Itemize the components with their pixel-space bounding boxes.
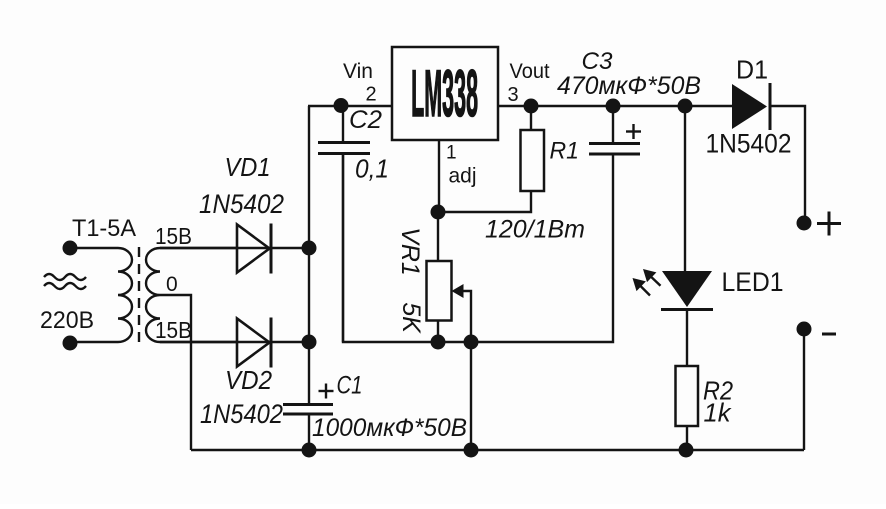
capacitor C2 [318,106,370,342]
wire D1 cathode to plus terminal [770,106,805,217]
diode VD2 [160,318,271,368]
svg-text:15В: 15В [155,317,192,343]
capacitor C1 [283,405,333,451]
svg-text:VD2: VD2 [225,365,273,395]
svg-text:15В: 15В [155,223,192,249]
node C3 junction [606,99,621,114]
svg-text:Vout: Vout [510,60,550,83]
svg-text:T1-5A: T1-5A [72,215,136,242]
svg-text:2: 2 [366,84,377,106]
svg-text:LED1: LED1 [722,267,784,297]
svg-text:VD1: VD1 [225,154,271,182]
node Vin junction [334,98,349,113]
node C1 ground junction [302,443,317,458]
wire VD2 cathode to node [271,341,310,343]
transformer T1 secondary winding [146,248,236,342]
node adj junction [431,205,446,220]
wire rectified bus vertical [308,106,310,405]
op-amp U1 regulator LM338 box [392,47,498,140]
svg-text:220В: 220В [40,307,94,334]
minus output terminal [797,322,812,337]
capacitor C3 [589,106,640,154]
label plus [817,212,841,236]
potentiometer VR1 [427,212,452,342]
node VR1 bottom junction [431,335,446,350]
wire output rail [498,105,732,107]
svg-text:1000мкФ*50В: 1000мкФ*50В [312,414,467,442]
svg-text:LM338: LM338 [411,58,478,131]
svg-text:5K: 5K [397,302,425,334]
AC waveform symbol [44,274,86,289]
svg-text:C2: C2 [349,106,382,134]
node Vout junction [524,99,539,114]
svg-text:R1: R1 [550,138,580,165]
svg-text:470мкФ*50В: 470мкФ*50В [557,72,701,100]
resistor R2 [676,366,699,450]
svg-text:C1: C1 [337,372,363,400]
transformer T1 core [138,247,140,344]
node wiper ground junction [464,443,479,458]
polarity plus of C3 [626,124,641,139]
plus output terminal [797,216,812,231]
wire LED to R2 [686,310,688,366]
node wiper junction [464,335,479,350]
node R2 ground junction [679,443,694,458]
svg-text:D1: D1 [736,55,768,85]
primary bottom terminal [63,336,78,351]
wire 0-tap to ground rail [160,295,191,450]
svg-text:3: 3 [508,84,519,106]
wire adj pin 1 [438,140,440,212]
svg-text:1N5402: 1N5402 [706,129,792,159]
wire top rail to regulator input [308,105,392,107]
svg-text:1: 1 [446,143,457,164]
diode VD1 [160,224,271,274]
svg-text:1N5402: 1N5402 [199,189,284,219]
node VD1 junction [302,241,317,256]
node VD2 junction [302,335,317,350]
wire minus terminal to ground rail [803,334,805,450]
svg-text:C3: C3 [582,48,614,75]
primary top terminal [63,241,78,256]
polarity plus of C1 [319,384,334,399]
svg-text:Vin: Vin [343,60,373,83]
svg-text:0: 0 [166,273,178,296]
node LED branch junction [678,99,693,114]
svg-text:120/1Вт: 120/1Вт [485,216,585,244]
wire VD1 cathode to node [271,247,310,249]
transformer T1 primary winding [70,248,132,342]
label minus [822,333,836,336]
LED light arrows [633,269,661,296]
wire LED branch [684,106,686,272]
svg-text:adj: adj [449,165,477,188]
svg-text:VR1: VR1 [396,227,424,276]
resistor R1 [438,106,544,212]
wire ground rail [191,449,804,451]
svg-text:1k: 1k [704,398,733,428]
LED LED1 [661,271,713,310]
wire adj rail [343,155,613,342]
svg-text:0,1: 0,1 [355,154,389,184]
diode D1 [732,83,770,130]
svg-text:1N5402: 1N5402 [200,399,283,429]
potentiometer VR1 wiper arrow [452,284,472,450]
